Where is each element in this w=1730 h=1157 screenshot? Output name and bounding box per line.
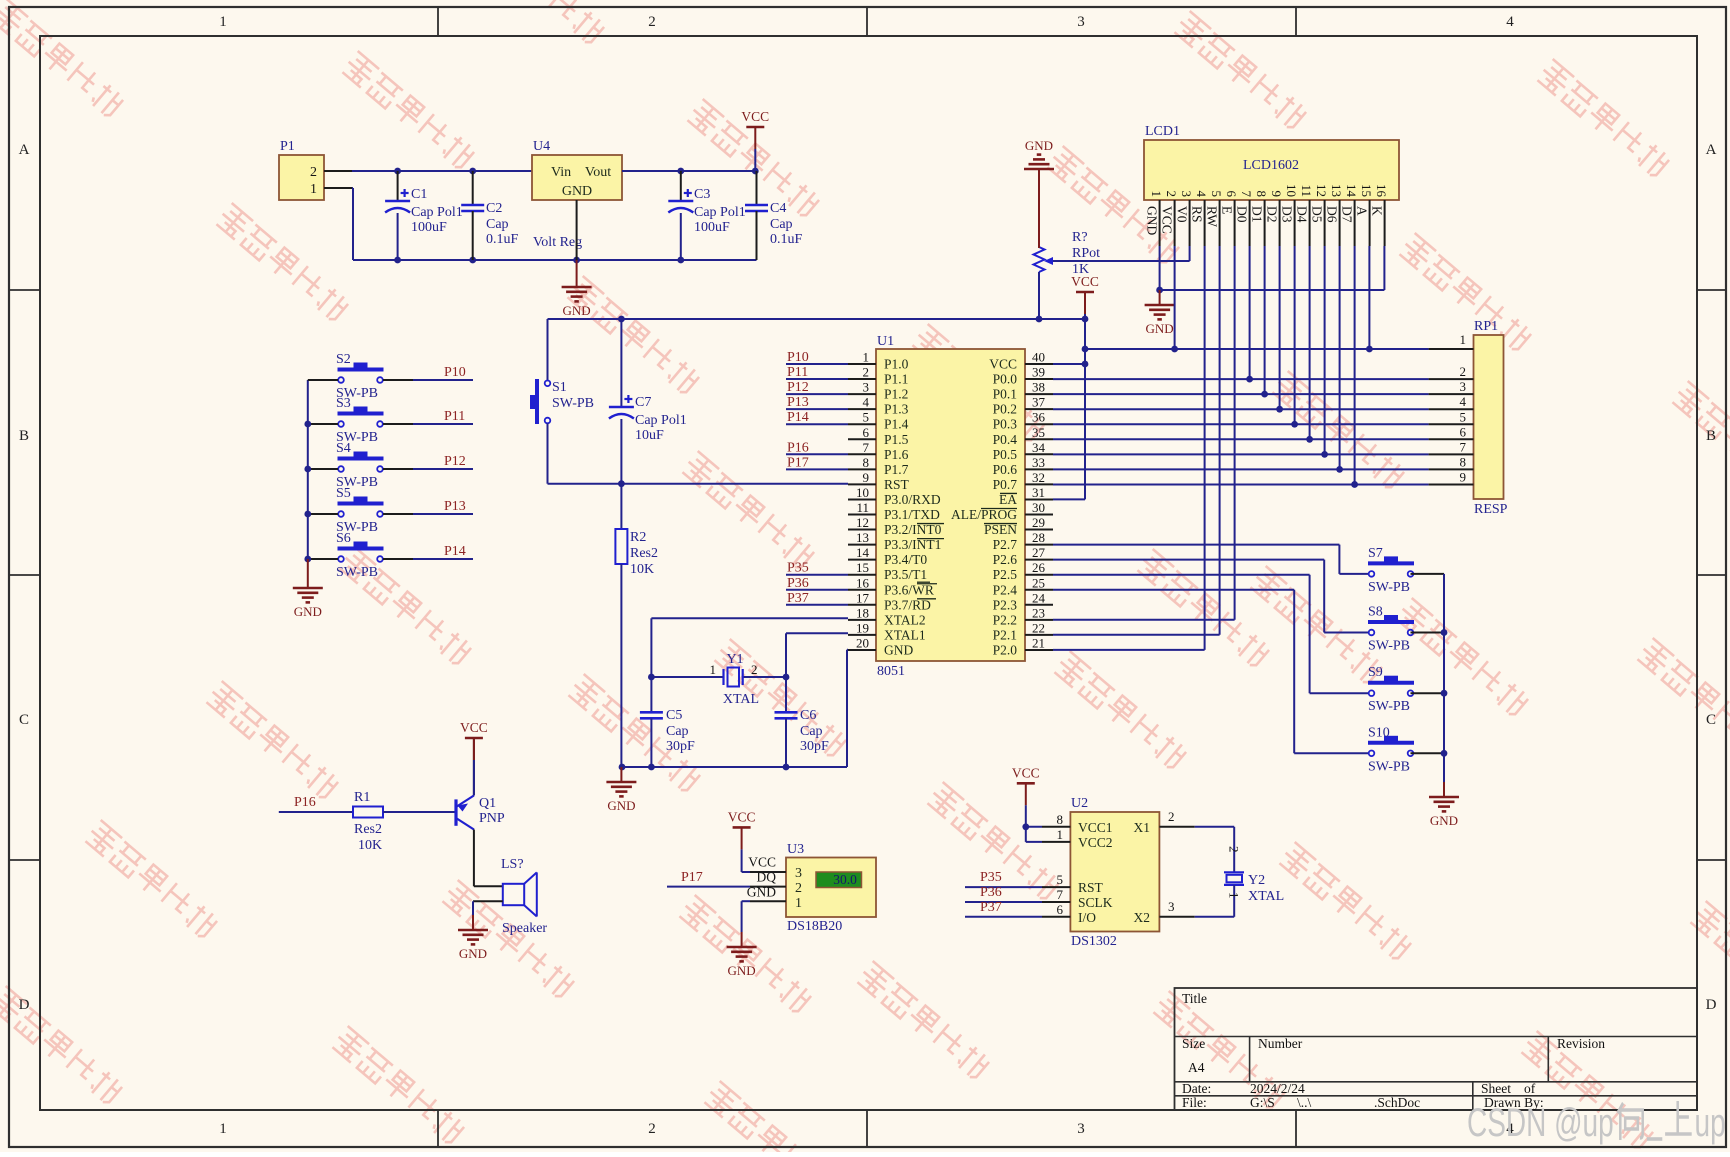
svg-text:GND: GND <box>563 303 591 318</box>
crystal Y2 <box>1195 827 1285 917</box>
power GND symbol U3 <box>727 932 757 978</box>
svg-text:10: 10 <box>1284 184 1299 197</box>
title block <box>1175 988 1698 1110</box>
wire P1 pin1 down to ground rail <box>352 188 398 260</box>
svg-text:SW-PB: SW-PB <box>1368 639 1410 654</box>
svg-text:P0.2: P0.2 <box>993 402 1017 417</box>
svg-text:D7: D7 <box>1340 206 1355 223</box>
capacitor C6 <box>775 677 830 767</box>
switch S1 <box>530 319 594 424</box>
svg-text:16: 16 <box>856 575 870 590</box>
svg-text:LCD1: LCD1 <box>1145 124 1180 139</box>
svg-text:P12: P12 <box>444 454 466 469</box>
wire P2.7 to S7 <box>1053 545 1369 574</box>
wire S1 bottom to RST <box>548 423 849 483</box>
svg-text:4: 4 <box>1460 394 1467 409</box>
svg-text:Y1: Y1 <box>726 652 743 667</box>
svg-text:3: 3 <box>1179 191 1194 198</box>
svg-text:Vin: Vin <box>551 165 571 180</box>
svg-text:Vout: Vout <box>585 165 611 180</box>
svg-text:C: C <box>1706 712 1716 728</box>
svg-text:2: 2 <box>648 14 656 30</box>
svg-text:P0.7: P0.7 <box>993 477 1018 492</box>
svg-text:Y2: Y2 <box>1248 873 1265 888</box>
wire LCD pin2 VCC <box>1174 246 1176 349</box>
wire LCD E to P2.2 <box>1234 246 1236 620</box>
svg-text:1K: 1K <box>1072 262 1089 277</box>
svg-text:GND: GND <box>1430 813 1458 828</box>
svg-text:10: 10 <box>856 485 869 500</box>
wire LCD RS to P2.0 <box>1204 246 1206 650</box>
svg-text:GND: GND <box>728 963 756 978</box>
svg-text:14: 14 <box>1344 184 1359 198</box>
svg-text:S3: S3 <box>336 396 351 411</box>
net label P12 <box>413 454 473 469</box>
junction dots crystal <box>648 674 789 681</box>
svg-text:up: up <box>1695 1101 1726 1145</box>
wire U4 Vout to VCC <box>622 170 755 172</box>
svg-text:13: 13 <box>856 530 869 545</box>
svg-text:30pF: 30pF <box>800 739 829 754</box>
svg-text:40: 40 <box>1032 350 1045 365</box>
switch S3 <box>308 396 413 445</box>
svg-text:0.1uF: 0.1uF <box>486 232 519 247</box>
svg-text:P1.1: P1.1 <box>884 372 908 387</box>
svg-text:RPot: RPot <box>1072 246 1100 261</box>
junction dot RST <box>618 480 625 487</box>
svg-text:VCC: VCC <box>741 109 769 124</box>
svg-text:C5: C5 <box>666 708 682 723</box>
net labels P10-P14 left of U1 <box>786 350 848 425</box>
resistor pack RP1 RESP <box>1429 319 1508 517</box>
svg-text:P36: P36 <box>980 885 1002 900</box>
svg-text:19: 19 <box>856 620 869 635</box>
svg-text:S1: S1 <box>552 380 567 395</box>
svg-text:34: 34 <box>1032 440 1046 455</box>
svg-text:1: 1 <box>1057 827 1064 842</box>
svg-text:PSEN: PSEN <box>984 522 1017 537</box>
svg-text:P12: P12 <box>787 380 809 395</box>
svg-text:A: A <box>1355 206 1370 216</box>
display LCD1 LCD1602 <box>1144 124 1399 246</box>
capacitor C5 <box>640 677 695 767</box>
svg-text:P0.3: P0.3 <box>993 417 1018 432</box>
svg-text:2: 2 <box>1460 364 1467 379</box>
svg-text:VCC: VCC <box>728 809 756 824</box>
svg-text:Revision: Revision <box>1557 1036 1605 1051</box>
svg-text:36: 36 <box>1032 410 1046 425</box>
svg-text:2: 2 <box>1227 846 1242 853</box>
svg-text:Res2: Res2 <box>630 546 658 561</box>
svg-text:P37: P37 <box>787 591 809 606</box>
net label P11 <box>413 409 473 424</box>
svg-text:8: 8 <box>863 455 870 470</box>
svg-text:Q1: Q1 <box>479 796 496 811</box>
svg-text:P10: P10 <box>444 365 466 380</box>
svg-text:SW-PB: SW-PB <box>1368 699 1410 714</box>
svg-text:P0.4: P0.4 <box>993 432 1018 447</box>
svg-text:6: 6 <box>863 425 870 440</box>
svg-text:GND: GND <box>607 798 635 813</box>
svg-text:P3.0/RXD: P3.0/RXD <box>884 492 941 507</box>
capacitor C1 <box>385 171 463 260</box>
svg-text:LCD1602: LCD1602 <box>1243 158 1299 173</box>
svg-text:U4: U4 <box>533 139 550 154</box>
svg-text:3: 3 <box>1077 14 1085 30</box>
svg-text:DS18B20: DS18B20 <box>787 919 842 934</box>
svg-text:P2.4: P2.4 <box>993 582 1018 597</box>
svg-text:D0: D0 <box>1235 206 1250 223</box>
switch bus wire left <box>307 380 309 559</box>
junction dots vin rail <box>394 168 476 175</box>
svg-text:B: B <box>1706 428 1716 444</box>
svg-text:Date:: Date: <box>1182 1081 1211 1096</box>
svg-text:P1.7: P1.7 <box>884 462 909 477</box>
svg-text:P3.5/T1: P3.5/T1 <box>884 567 927 582</box>
svg-text:7: 7 <box>1057 887 1064 902</box>
svg-text:1: 1 <box>219 1121 227 1137</box>
svg-text:Volt Reg: Volt Reg <box>533 235 582 250</box>
svg-text:7: 7 <box>863 440 870 455</box>
svg-text:1: 1 <box>710 662 717 677</box>
svg-text:6: 6 <box>1224 191 1239 198</box>
svg-text:S9: S9 <box>1368 665 1383 680</box>
svg-text:RST: RST <box>1078 880 1104 895</box>
power GND symbol potentiometer <box>1024 138 1054 248</box>
svg-text:SW-PB: SW-PB <box>336 565 378 580</box>
svg-text:100uF: 100uF <box>411 220 447 235</box>
wire U3 GND <box>741 901 743 932</box>
svg-text:10K: 10K <box>358 838 382 853</box>
power GND symbol LCD <box>1145 290 1175 336</box>
svg-text:Cap: Cap <box>800 724 823 739</box>
switch S9 <box>1368 665 1444 714</box>
svg-text:2: 2 <box>1164 191 1179 198</box>
svg-text:1: 1 <box>863 350 870 365</box>
connector P1 <box>279 139 352 200</box>
svg-text:R?: R? <box>1072 230 1088 245</box>
junction dots vout rail <box>677 168 758 175</box>
svg-text:SW-PB: SW-PB <box>1368 580 1410 595</box>
svg-text:GND: GND <box>884 642 913 657</box>
svg-text:Size: Size <box>1182 1036 1205 1051</box>
svg-text:XTAL2: XTAL2 <box>884 612 926 627</box>
svg-text:D5: D5 <box>1310 206 1325 223</box>
svg-text:SCLK: SCLK <box>1078 895 1113 910</box>
svg-text:R1: R1 <box>354 790 370 805</box>
svg-text:RESP: RESP <box>1474 502 1508 517</box>
speaker LS? <box>474 857 548 936</box>
svg-text:of: of <box>1524 1081 1536 1096</box>
svg-text:GND: GND <box>294 604 322 619</box>
switch S6 <box>308 531 413 580</box>
svg-text:31: 31 <box>1032 485 1045 500</box>
svg-text:2: 2 <box>751 662 758 677</box>
power GND symbol switches <box>293 559 323 619</box>
svg-text:P17: P17 <box>787 455 809 470</box>
junction dots switch bus right <box>1441 629 1448 757</box>
svg-text:P10: P10 <box>787 350 809 365</box>
svg-text:E: E <box>1220 206 1235 214</box>
svg-text:5: 5 <box>1460 409 1467 424</box>
svg-text:VCC1: VCC1 <box>1078 820 1113 835</box>
svg-text:8: 8 <box>1460 454 1467 469</box>
svg-text:DQ: DQ <box>757 870 777 885</box>
svg-text:15: 15 <box>1359 184 1374 197</box>
svg-text:7: 7 <box>1239 191 1254 198</box>
svg-text:S10: S10 <box>1368 725 1390 740</box>
svg-text:6: 6 <box>1460 424 1467 439</box>
svg-text:22: 22 <box>1032 620 1045 635</box>
svg-text:3: 3 <box>1077 1121 1085 1137</box>
capacitor C7 <box>609 319 687 484</box>
wire switch ground bus right <box>1443 574 1445 782</box>
junction dot LCD gnd <box>1156 287 1163 294</box>
svg-text:P2.3: P2.3 <box>993 597 1018 612</box>
svg-text:P2.5: P2.5 <box>993 567 1018 582</box>
potentiometer R? RPot <box>1034 171 1101 319</box>
svg-text:4: 4 <box>1506 14 1514 30</box>
svg-text:12: 12 <box>1314 184 1329 197</box>
power GND symbol crystal <box>606 767 636 813</box>
svg-text:A4: A4 <box>1188 1060 1205 1075</box>
svg-text:C7: C7 <box>635 395 651 410</box>
svg-text:2: 2 <box>1168 809 1175 824</box>
svg-text:U2: U2 <box>1071 796 1088 811</box>
svg-text:P3.6/WR: P3.6/WR <box>884 582 934 597</box>
svg-text:15: 15 <box>856 560 869 575</box>
svg-text:P0.1: P0.1 <box>993 387 1017 402</box>
svg-text:P1: P1 <box>280 139 295 154</box>
wire LCD RW to P2.1 <box>1219 246 1221 635</box>
svg-text:VCC: VCC <box>989 357 1017 372</box>
resistor R2 <box>615 484 658 767</box>
svg-text:12: 12 <box>856 515 869 530</box>
junction dots switch bus <box>304 421 311 563</box>
microcontroller U1 8051 <box>848 334 1053 679</box>
svg-text:VCC: VCC <box>460 720 488 735</box>
svg-text:EA: EA <box>999 492 1017 507</box>
svg-text:Res2: Res2 <box>354 822 382 837</box>
svg-text:VCC: VCC <box>1160 206 1175 234</box>
svg-text:Cap Pol1: Cap Pol1 <box>411 205 463 220</box>
switch S5 <box>308 486 413 535</box>
svg-text:P37: P37 <box>980 900 1002 915</box>
junction dots VCC rail <box>618 316 1088 323</box>
svg-text:2: 2 <box>863 365 870 380</box>
net label P17 wire U3 <box>681 870 703 885</box>
junction dots crystal ground <box>619 764 790 771</box>
wire LCD pin15 A to VCC rail <box>1368 246 1370 349</box>
svg-text:1: 1 <box>310 182 317 197</box>
svg-text:CSDN @up: CSDN @up <box>1467 1101 1614 1145</box>
svg-text:SW-PB: SW-PB <box>552 396 594 411</box>
wire P2.6 to S8 <box>1053 560 1369 633</box>
svg-text:1: 1 <box>1227 892 1242 899</box>
switch S8 <box>1368 605 1444 654</box>
svg-text:R2: R2 <box>630 530 646 545</box>
svg-text:P35: P35 <box>787 561 809 576</box>
power GND symbol speaker <box>458 915 488 961</box>
wire LCD pin3 V0 to potentiometer <box>1053 246 1190 261</box>
svg-text:DS1302: DS1302 <box>1071 934 1117 949</box>
svg-text:17: 17 <box>856 590 870 605</box>
capacitor C4 <box>745 171 803 260</box>
power GND symbol S7-S10 <box>1429 782 1459 828</box>
svg-text:\..\: \..\ <box>1297 1095 1312 1110</box>
svg-text:S6: S6 <box>336 531 351 546</box>
net label P13 <box>413 499 473 514</box>
svg-text:P3.4/T0: P3.4/T0 <box>884 552 927 567</box>
svg-text:Cap Pol1: Cap Pol1 <box>694 205 746 220</box>
svg-text:X1: X1 <box>1134 820 1151 835</box>
svg-text:SW-PB: SW-PB <box>1368 759 1410 774</box>
CSDN watermark (decorative) <box>1467 1101 1726 1145</box>
svg-text:RW: RW <box>1205 206 1220 227</box>
svg-text:21: 21 <box>1032 635 1045 650</box>
svg-text:D3: D3 <box>1280 206 1295 223</box>
svg-text:Number: Number <box>1258 1036 1303 1051</box>
capacitor C2 <box>461 171 518 260</box>
capacitor C3 <box>668 171 745 260</box>
svg-text:S7: S7 <box>1368 546 1383 561</box>
switch S4 <box>308 441 413 490</box>
svg-text:P3.1/TXD: P3.1/TXD <box>884 507 940 522</box>
svg-text:A: A <box>19 142 30 158</box>
svg-text:D6: D6 <box>1325 206 1340 223</box>
net labels P35 P36 P37 U2 <box>965 870 1042 917</box>
voltage regulator U4 <box>532 139 622 260</box>
svg-text:8051: 8051 <box>877 664 905 679</box>
svg-text:RP1: RP1 <box>1474 319 1498 334</box>
svg-text:1: 1 <box>1149 191 1164 198</box>
junction dots VCC vertical <box>1082 346 1089 368</box>
svg-text:14: 14 <box>856 545 870 560</box>
wire P2.5 to S9 <box>1053 575 1369 694</box>
svg-text:GND: GND <box>1146 321 1174 336</box>
svg-text:Sheet: Sheet <box>1481 1081 1511 1096</box>
svg-text:P35: P35 <box>980 870 1002 885</box>
svg-text:C1: C1 <box>411 187 427 202</box>
svg-text:P2.6: P2.6 <box>993 552 1018 567</box>
svg-text:U1: U1 <box>877 334 894 349</box>
power GND symbol U4 <box>562 260 592 318</box>
svg-text:LS?: LS? <box>501 857 524 872</box>
svg-text:GND: GND <box>1025 138 1053 153</box>
svg-text:1: 1 <box>795 896 802 911</box>
wires P0.0-P0.7 to RP1 <box>1053 379 1429 484</box>
svg-text:P1.3: P1.3 <box>884 402 909 417</box>
svg-text:D2: D2 <box>1265 206 1280 223</box>
svg-text:39: 39 <box>1032 365 1045 380</box>
svg-text:C6: C6 <box>800 708 816 723</box>
svg-text:P3.3/INT1: P3.3/INT1 <box>884 537 941 552</box>
junction dots ground rail <box>394 257 684 264</box>
svg-text:28: 28 <box>1032 530 1045 545</box>
svg-text:ALE/PROG: ALE/PROG <box>951 507 1017 522</box>
svg-text:23: 23 <box>1032 605 1045 620</box>
svg-text:C2: C2 <box>486 201 502 216</box>
wire U2 VCC1 VCC2 <box>1026 827 1042 842</box>
wire P2.4 to S10 <box>1053 590 1369 754</box>
wires P2.0-P2.2 to LCD columns <box>1053 620 1235 650</box>
junction dot U2 vcc <box>1022 823 1029 830</box>
svg-text:P14: P14 <box>787 410 809 425</box>
svg-text:10K: 10K <box>630 562 654 577</box>
svg-text:GND: GND <box>1145 206 1160 235</box>
svg-text:P11: P11 <box>787 365 808 380</box>
temperature sensor U3 DS18B20 <box>667 842 876 934</box>
wire ground bus crystal <box>621 650 848 767</box>
svg-text:P2.7: P2.7 <box>993 537 1018 552</box>
svg-text:P17: P17 <box>681 870 703 885</box>
svg-text:S5: S5 <box>336 486 351 501</box>
svg-text:U3: U3 <box>787 842 804 857</box>
svg-text:27: 27 <box>1032 545 1046 560</box>
svg-text:1: 1 <box>219 14 227 30</box>
transistor Q1 PNP <box>456 738 505 886</box>
svg-text:VCC: VCC <box>1012 765 1040 780</box>
svg-text:2: 2 <box>795 881 802 896</box>
svg-text:0.1uF: 0.1uF <box>770 232 803 247</box>
svg-text:P2.0: P2.0 <box>993 642 1018 657</box>
svg-text:VCC: VCC <box>748 855 776 870</box>
svg-text:4: 4 <box>863 395 870 410</box>
svg-text:D: D <box>19 997 30 1013</box>
svg-text:X2: X2 <box>1134 910 1151 925</box>
svg-text:P1.0: P1.0 <box>884 357 909 372</box>
svg-text:Title: Title <box>1182 991 1207 1006</box>
svg-text:8: 8 <box>1057 812 1064 827</box>
crystal Y1 <box>651 652 786 707</box>
svg-text:26: 26 <box>1032 560 1046 575</box>
svg-text:100uF: 100uF <box>694 220 730 235</box>
wire LCD pin1 to GND <box>1160 246 1385 290</box>
svg-text:Speaker: Speaker <box>502 921 547 936</box>
svg-text:P2.1: P2.1 <box>993 627 1017 642</box>
svg-text:P3.2/INT0: P3.2/INT0 <box>884 522 942 537</box>
svg-text:11: 11 <box>856 500 869 515</box>
power VCC symbol U3 <box>728 809 756 872</box>
svg-text:D1: D1 <box>1250 206 1265 223</box>
svg-text:File:: File: <box>1182 1095 1207 1110</box>
svg-text:D: D <box>1706 997 1717 1013</box>
svg-text:9: 9 <box>1460 469 1467 484</box>
svg-text:GND: GND <box>459 946 487 961</box>
svg-text:P1.2: P1.2 <box>884 387 908 402</box>
ground rail wire <box>398 259 757 261</box>
svg-text:S4: S4 <box>336 441 351 456</box>
svg-text:3: 3 <box>1168 899 1175 914</box>
power VCC symbol U2 <box>1012 765 1040 827</box>
svg-text:38: 38 <box>1032 380 1045 395</box>
svg-text:GND: GND <box>562 184 592 199</box>
svg-text:9: 9 <box>1269 191 1284 198</box>
svg-text:P16: P16 <box>787 440 809 455</box>
svg-text:3: 3 <box>795 866 802 881</box>
svg-text:B: B <box>19 428 29 444</box>
svg-text:4: 4 <box>1194 191 1209 198</box>
svg-text:S2: S2 <box>336 352 351 367</box>
svg-text:Cap: Cap <box>486 217 509 232</box>
switch S7 <box>1368 546 1444 595</box>
resistor R1 <box>353 790 383 853</box>
svg-text:30.0: 30.0 <box>833 872 857 887</box>
svg-text:C: C <box>19 712 29 728</box>
rtc U2 DS1302 <box>1042 796 1195 949</box>
junction dots VCC horizontal <box>1171 346 1373 353</box>
svg-text:P13: P13 <box>787 395 809 410</box>
